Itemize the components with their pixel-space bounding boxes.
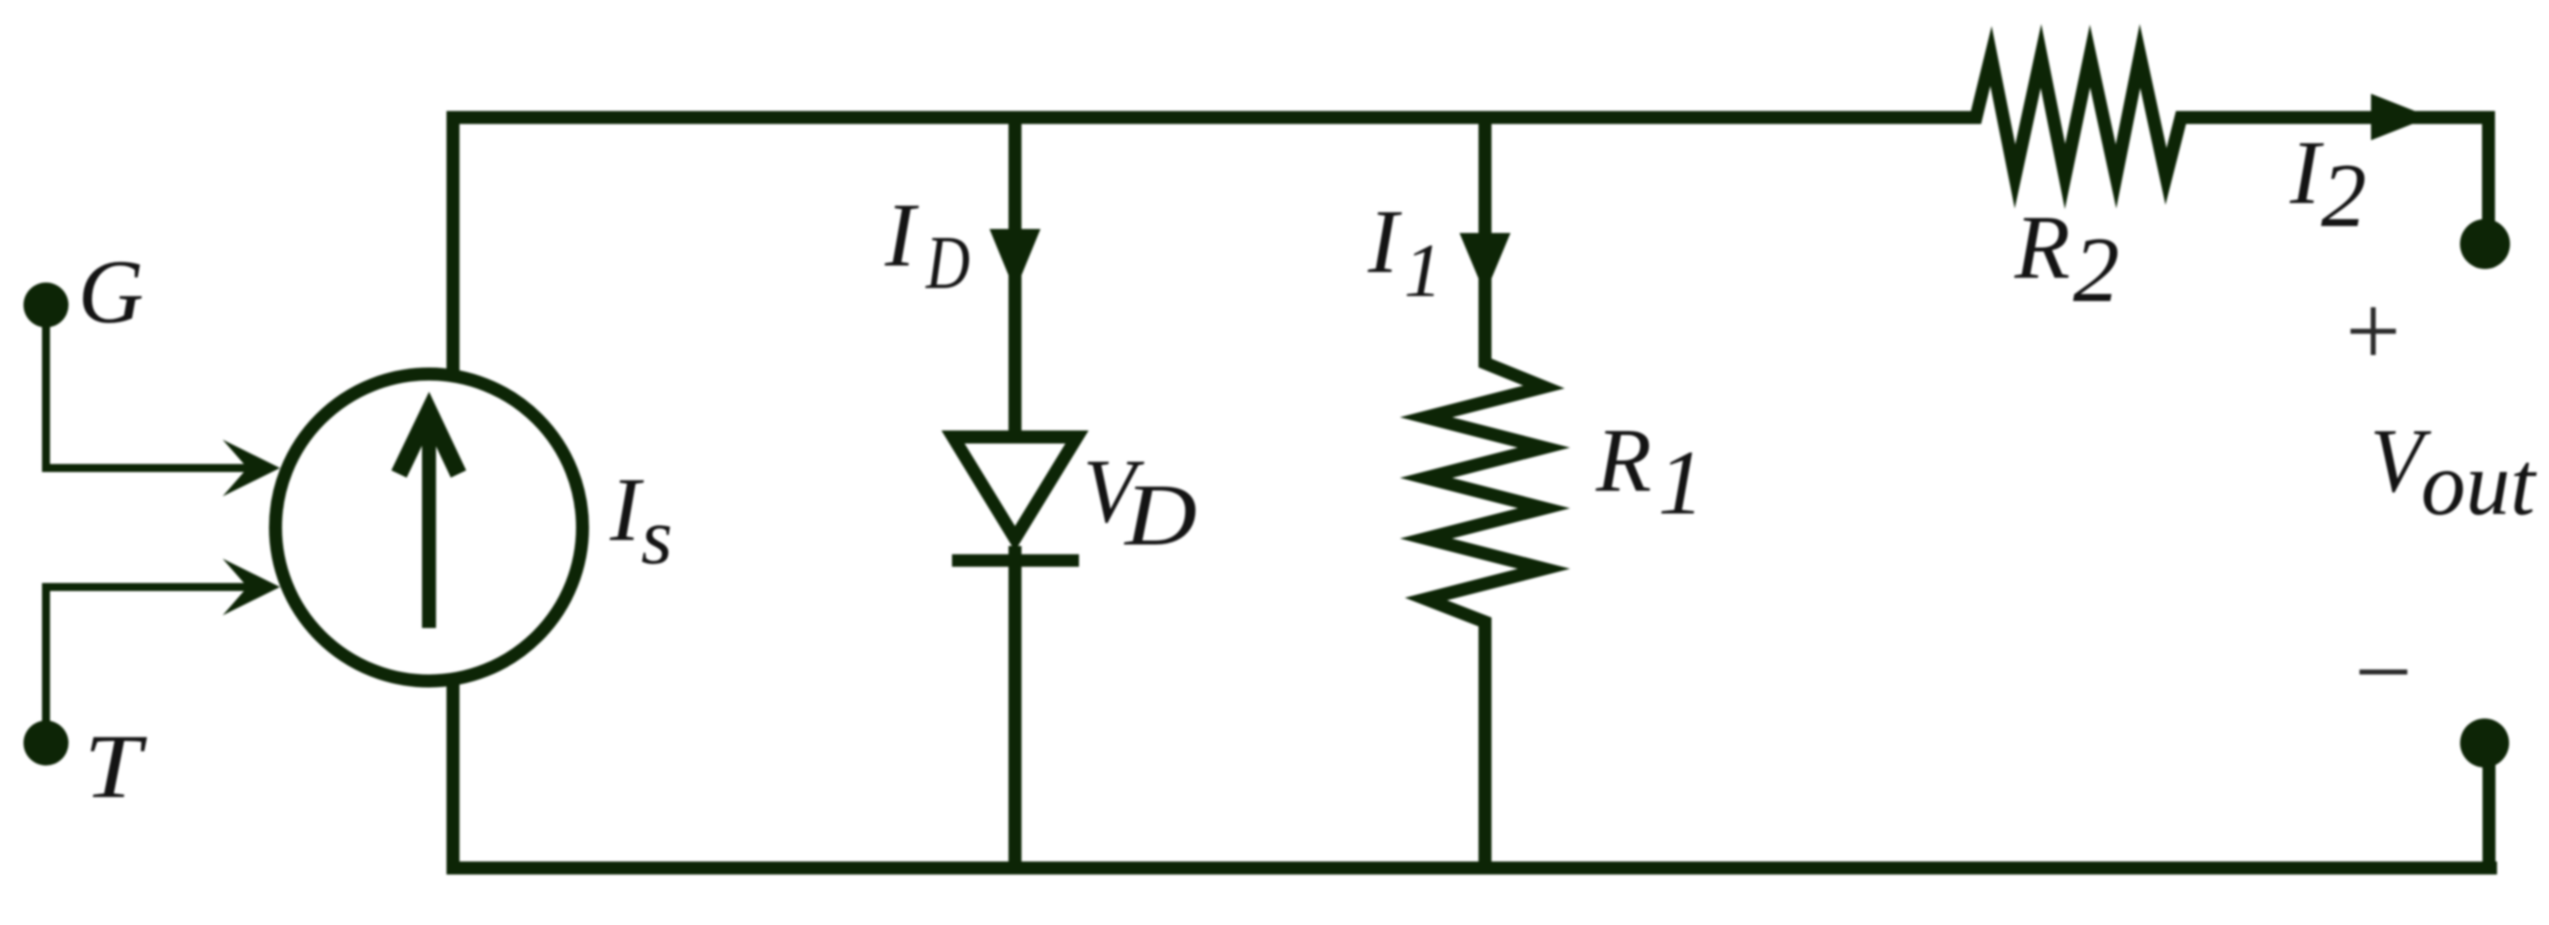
svg-text:s: s [641, 491, 673, 581]
wire bottom rail [447, 862, 2498, 875]
arrowhead current I1 [1460, 233, 1511, 294]
arrowhead current ID [990, 229, 1041, 291]
minus sign [2360, 670, 2408, 675]
arrowhead current I2 [2371, 94, 2430, 141]
wire bottom-right vertical from Vout minus dot to bottom rail [2483, 743, 2496, 868]
diode D triangle [953, 437, 1077, 539]
svg-text:1: 1 [1404, 229, 1442, 313]
svg-text:2: 2 [2321, 145, 2367, 246]
wire left vertical from top rail to current source [447, 111, 460, 380]
svg-text:I: I [1367, 191, 1402, 292]
diode branch wire lower [1009, 546, 1022, 875]
resistor R1 branch with zigzag [1426, 111, 1544, 875]
svg-text:1: 1 [1658, 431, 1704, 533]
wire top rail with resistor R2 zigzag and top-right corner drop [453, 56, 2489, 243]
svg-text:T: T [84, 716, 147, 817]
svg-text:out: out [2421, 433, 2538, 534]
node T terminal dot [24, 721, 69, 766]
svg-text:R: R [1595, 410, 1652, 511]
current source Is circle [276, 374, 583, 681]
wire G branch (thin) [46, 327, 252, 468]
current source arrow shaft [422, 416, 436, 628]
wire T branch (thin) [46, 587, 252, 721]
plus sign [2351, 329, 2396, 334]
current source arrow chevron head [399, 412, 459, 475]
diode D cathode bar [952, 554, 1079, 567]
svg-text:2: 2 [2073, 219, 2120, 322]
diode branch wire upper [1009, 111, 1022, 437]
svg-text:R: R [2014, 196, 2071, 297]
node G terminal dot [24, 283, 69, 328]
svg-text:D: D [925, 221, 970, 305]
arrowhead into source from T [223, 559, 280, 616]
svg-text:I: I [2289, 122, 2324, 223]
svg-text:G: G [78, 241, 144, 342]
svg-text:D: D [1124, 467, 1197, 564]
svg-text:I: I [609, 459, 644, 560]
node Vout minus terminal dot [2460, 719, 2509, 768]
wire left vertical from current source to bottom rail [447, 676, 460, 875]
arrowhead into source from G [223, 440, 280, 497]
svg-text:I: I [884, 185, 919, 286]
node Vout plus terminal dot [2460, 219, 2510, 269]
